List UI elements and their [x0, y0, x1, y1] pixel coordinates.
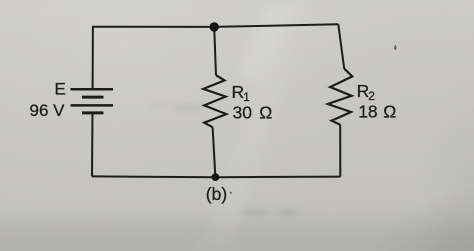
svg-text:96 V: 96 V: [30, 101, 66, 120]
wire bottom: [92, 175, 340, 178]
wire left lower (battery to corner): [91, 114, 94, 176]
wire R1 top (node A to resistor): [214, 27, 216, 75]
wire R1 bottom (resistor to node B): [213, 127, 216, 177]
resistor R2: [328, 69, 353, 125]
svg-text:18: 18: [358, 102, 377, 122]
node B (bottom junction): [212, 173, 220, 181]
svg-text:R: R: [232, 82, 245, 102]
battery E: [71, 89, 114, 113]
wire left upper (corner to battery): [92, 26, 94, 88]
svg-text:Ω: Ω: [383, 102, 396, 122]
wire top: [93, 24, 338, 27]
svg-text:30: 30: [233, 103, 253, 123]
svg-text:Ω: Ω: [259, 103, 272, 123]
wire R2 top (corner to resistor): [338, 24, 344, 68]
svg-text:(b): (b): [206, 184, 227, 204]
wire R2 bottom (resistor to corner): [339, 125, 341, 177]
svg-text:E: E: [55, 80, 66, 99]
resistor R1: [203, 75, 226, 127]
node A (top junction): [210, 22, 219, 31]
